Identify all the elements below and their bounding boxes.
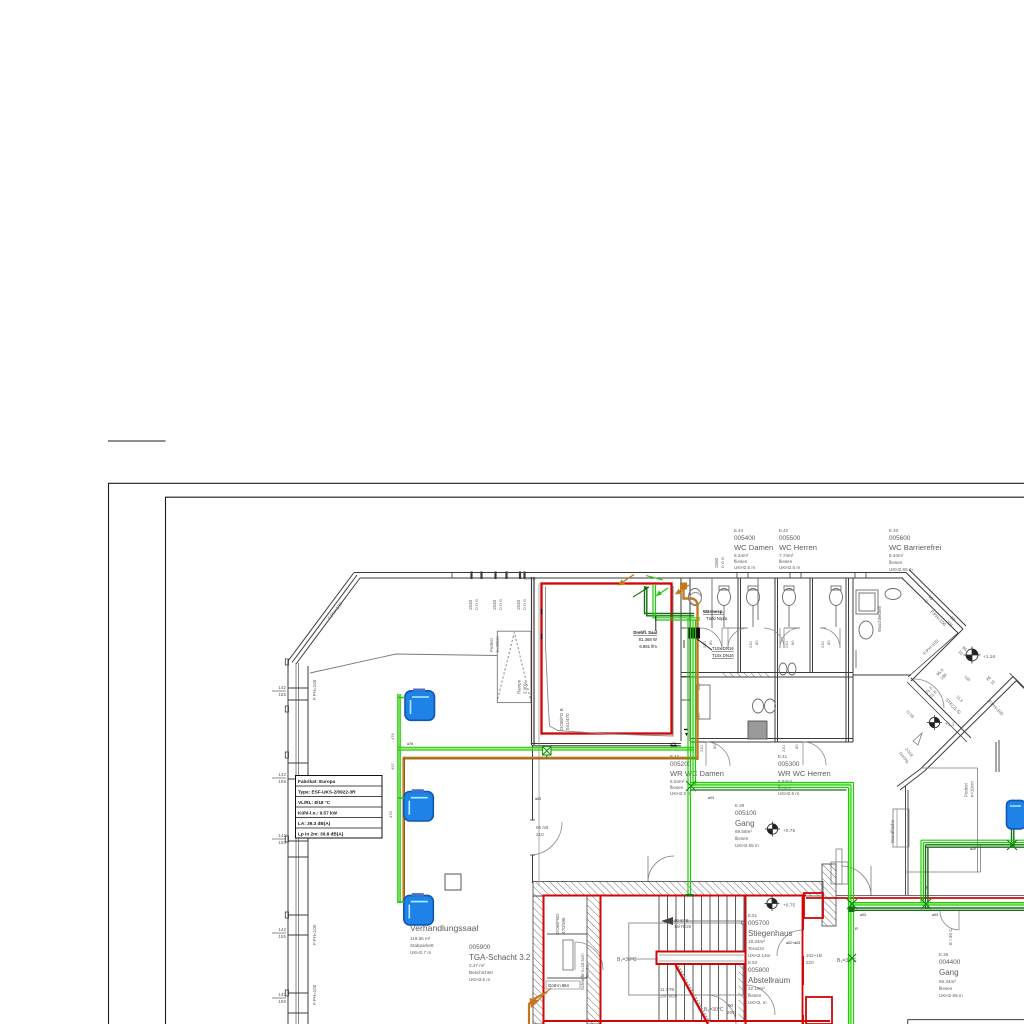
svg-text:WC Herren: WC Herren (779, 543, 817, 552)
svg-text:Stiegenhaus: Stiegenhaus (748, 929, 792, 938)
svg-text:a03: a03 (535, 797, 541, 801)
svg-text:E.52: E.52 (748, 960, 758, 965)
svg-text:R.A.R: R.A.R (524, 576, 536, 581)
svg-text:fliesen: fliesen (735, 836, 749, 841)
svg-text:E.40: E.40 (889, 528, 899, 533)
toilets (689, 586, 843, 627)
svg-text:UKH3.14m: UKH3.14m (748, 953, 771, 958)
svg-text:WC Damen: WC Damen (734, 543, 773, 552)
left wall notches (285, 659, 288, 996)
svg-text:90 AB: 90 AB (536, 825, 548, 830)
dark green horizontal y908 (851, 908, 1024, 910)
svg-text:Gott+n 664: Gott+n 664 (548, 983, 570, 988)
svg-text:155: 155 (278, 840, 286, 845)
svg-text:16/75/29: 16/75/29 (660, 994, 678, 999)
svg-text:UKH2.65 m: UKH2.65 m (889, 567, 913, 572)
svg-text:210: 210 (784, 641, 789, 648)
svg-text:D O B: D O B (474, 599, 479, 610)
Saal left wall (531, 577, 533, 745)
svg-text:Stabparkett: Stabparkett (410, 943, 434, 948)
Podest/Rampe triangle (497, 631, 531, 702)
svg-text:11 STB: 11 STB (660, 987, 674, 992)
svg-text:D O B: D O B (522, 599, 527, 610)
svg-text:UKH3. m: UKH3. m (748, 1000, 767, 1005)
PIPES (398, 575, 1024, 1024)
svg-text:210: 210 (536, 832, 544, 837)
green stubs to fan coils (398, 698, 405, 903)
svg-text:80: 80 (794, 744, 799, 749)
svg-text:Fabrikat: Europa: Fabrikat: Europa (298, 779, 336, 784)
svg-text:80: 80 (712, 744, 717, 749)
svg-text:5.63m²: 5.63m² (778, 779, 793, 784)
svg-text:a03: a03 (932, 913, 938, 917)
svg-text:n=10cm: n=10cm (495, 636, 500, 652)
bottom-right partial rect (908, 1019, 1024, 1021)
stall door arcs (700, 628, 840, 650)
svg-text:005600: 005600 (889, 535, 911, 542)
red corridor line right (806, 897, 1024, 899)
svg-text:22.19m²: 22.19m² (748, 986, 765, 991)
svg-text:F.PH=100: F.PH=100 (312, 984, 317, 1005)
svg-text:18.34m²: 18.34m² (748, 939, 765, 944)
svg-text:80: 80 (790, 640, 795, 645)
stair arrows + treads labels (661, 917, 673, 925)
svg-text:2.27 m²: 2.27 m² (469, 963, 485, 968)
red room inner gray outline (546, 587, 674, 737)
bundle horizontal y782-790 (690, 783, 854, 788)
svg-text:WC Barrierefrei: WC Barrierefrei (889, 543, 942, 552)
svg-text:004400: 004400 (939, 959, 961, 966)
svg-text:E.38: E.38 (939, 952, 949, 957)
svg-text:UKH2.7 m: UKH2.7 m (410, 950, 431, 955)
svg-text:3.90%: 3.90% (523, 681, 528, 694)
corridor wall vertical below Saal (532, 745, 534, 820)
svg-text:D O B: D O B (498, 599, 503, 610)
svg-text:80: 80 (754, 640, 759, 645)
svg-text:E.42: E.42 (779, 528, 789, 533)
svg-text:005800: 005800 (748, 967, 770, 974)
stair landing bar (657, 952, 746, 965)
top exterior wall (354, 572, 906, 574)
svg-text:005500: 005500 (779, 535, 801, 542)
svg-text:005400: 005400 (734, 535, 756, 542)
svg-text:16/75/29: 16/75/29 (674, 924, 692, 929)
svg-text:Abstellraum: Abstellraum (748, 976, 791, 985)
WC Barrierefrei fixtures (856, 589, 901, 669)
door arc Abstellraum right wall (706, 930, 803, 1024)
red room (Saal) (542, 584, 672, 734)
svg-text:2540: 2540 (516, 599, 521, 610)
bundle vertical x848-855 down (849, 783, 854, 1024)
svg-text:T10x DN16: T10x DN16 (712, 653, 734, 658)
svg-text:155: 155 (278, 779, 286, 784)
svg-text:142: 142 (278, 833, 286, 838)
svg-text:DOB/FD B: DOB/FD B (559, 708, 564, 730)
svg-text:210: 210 (781, 745, 786, 752)
stall dims rotated (699, 640, 831, 752)
svg-text:Drehfl. Saal: Drehfl. Saal (633, 630, 657, 635)
svg-text:005900: 005900 (469, 944, 491, 951)
wall below red room / corridor top (532, 743, 682, 745)
room label helper groups (410, 528, 963, 1015)
svg-text:Wärmesp.: Wärmesp. (703, 609, 724, 614)
svg-text:fliesen: fliesen (939, 986, 953, 991)
washbasin circle behind (690, 593, 702, 605)
svg-text:119.55 m²: 119.55 m² (410, 936, 431, 941)
svg-text:T10x DN16: T10x DN16 (712, 646, 734, 651)
svg-text:470/396: 470/396 (561, 917, 566, 934)
stair diagonal flight (676, 965, 709, 1024)
svg-text:E I 30 C: E I 30 C (948, 928, 953, 945)
svg-text:fliesen: fliesen (779, 559, 793, 564)
svg-text:155: 155 (278, 692, 286, 697)
door red jambs stair (745, 985, 747, 1015)
orange at TGA bottom (529, 992, 547, 1024)
svg-text:005100: 005100 (735, 810, 757, 817)
green horizontal pair y748 (398, 747, 694, 750)
left wall ticks (288, 688, 308, 1013)
svg-text:437: 437 (390, 763, 395, 770)
WC block middle wall (682, 672, 854, 674)
svg-text:69.58m²: 69.58m² (735, 829, 752, 834)
top-left diagonal wall (288, 573, 354, 662)
svg-text:fliesen: fliesen (889, 560, 903, 565)
svg-text:8.34m²: 8.34m² (889, 553, 904, 558)
WC partition walls (737, 578, 739, 673)
svg-text:478: 478 (388, 811, 393, 818)
svg-text:fliesen: fliesen (734, 559, 748, 564)
svg-text:142: 142 (278, 685, 286, 690)
svg-text:E.41: E.41 (778, 754, 788, 759)
WALLS (285, 570, 1024, 1024)
svg-text:Gang: Gang (939, 968, 959, 977)
svg-text:210: 210 (820, 641, 825, 648)
stairwell top red wall (601, 895, 807, 897)
svg-text:478: 478 (390, 733, 395, 740)
svg-text:102+1B: 102+1B (806, 953, 822, 958)
Abstellraum right red wall (802, 896, 804, 931)
top wall window ticks (452, 572, 866, 580)
valve on green line (543, 747, 552, 759)
svg-text:210: 210 (748, 641, 753, 648)
svg-text:Podest: Podest (489, 638, 494, 652)
orange vertical left (402, 757, 404, 901)
survey point symbols (765, 647, 996, 912)
svg-text:220: 220 (806, 960, 814, 965)
svg-text:142: 142 (278, 992, 286, 997)
svg-text:UKH2.65 m: UKH2.65 m (735, 843, 759, 848)
svg-text:B₃=30°C: B₃=30°C (617, 957, 637, 963)
svg-text:+1.1: +1.1 (945, 722, 955, 728)
svg-text:n=10cm: n=10cm (970, 781, 975, 797)
left wall inner segments (307, 666, 309, 1024)
TGA interior (547, 934, 603, 978)
svg-text:6.881 lfm: 6.881 lfm (639, 644, 657, 649)
svg-text:2540: 2540 (492, 599, 497, 610)
svg-text:DOB/FBD: DOB/FBD (555, 913, 560, 934)
bright green riser (top) (653, 585, 700, 620)
svg-text:Waschbecken: Waschbecken (877, 605, 882, 632)
svg-text:142: 142 (278, 772, 286, 777)
svg-text:F.PH=100: F.PH=100 (312, 924, 317, 945)
black pipe texts (407, 609, 976, 988)
washbasins lower rooms (696, 663, 796, 739)
svg-text:E.39: E.39 (735, 803, 745, 808)
Wandflaeche / Podest right area (893, 733, 999, 930)
svg-text:UKH2.5 m: UKH2.5 m (778, 791, 799, 796)
svg-text:Türkl Nrpla: Türkl Nrpla (706, 616, 728, 621)
svg-text:6.04m²: 6.04m² (670, 779, 685, 784)
svg-text:Wandfläche: Wandfläche (890, 819, 895, 843)
svg-text:80: 80 (708, 640, 713, 645)
dark green L right top: from blue box4 (926, 829, 1024, 909)
svg-text:65.34m²: 65.34m² (939, 979, 956, 984)
svg-text:UKH2.5 m: UKH2.5 m (779, 565, 800, 570)
column square Verhandlungssaal (445, 874, 461, 890)
door dimension near TGA (0, 0, 1, 1)
svg-text:155: 155 (278, 934, 286, 939)
left exterior wall (287, 660, 289, 1024)
bright green bundle vertical x690-697 (688, 618, 696, 897)
TGA red box (544, 896, 601, 1024)
interior boundary Verhandlungssaal top (310, 654, 497, 673)
svg-text:Terazzo: Terazzo (748, 946, 765, 951)
orange arrow into Saal (618, 575, 634, 586)
svg-text:LA: 39.3 dB(A): LA: 39.3 dB(A) (298, 821, 331, 826)
corridor misc rects (648, 849, 871, 896)
stair treads (659, 896, 744, 1020)
WC block bottom wall (690, 738, 853, 740)
green X valves at junctions (686, 781, 1018, 962)
svg-text:Kühl-l.o.: 9.57 kW: Kühl-l.o.: 9.57 kW (298, 811, 338, 816)
svg-text:155: 155 (278, 999, 286, 1004)
svg-text:541/470: 541/470 (565, 713, 570, 730)
svg-text:9.24m²: 9.24m² (734, 553, 749, 558)
svg-text:E.51: E.51 (748, 913, 758, 918)
svg-text:2580: 2580 (714, 557, 719, 568)
svg-text:F.PH=100: F.PH=100 (312, 679, 317, 700)
RED ELEMENTS (539, 583, 1024, 1024)
svg-text:a03: a03 (860, 913, 866, 917)
stair inner boundary (628, 921, 745, 995)
svg-text:VL/RL: 8/18 °C: VL/RL: 8/18 °C (298, 800, 331, 805)
svg-text:fliesen: fliesen (748, 993, 762, 998)
top-right diagonal zigzag (853, 570, 1024, 772)
142/155 window labels (278, 685, 286, 1004)
orange horizontal y758 (403, 757, 697, 759)
svg-text:90: 90 (728, 1003, 734, 1008)
doors WC bottom wall arcs (706, 742, 826, 766)
svg-text:Beschichtet: Beschichtet (469, 970, 493, 975)
svg-text:+0.75: +0.75 (783, 828, 795, 834)
svg-text:UKH2.65 m: UKH2.65 m (939, 993, 963, 998)
wall Saal/WC block (672, 586, 674, 737)
bright green vertical pair left (serves fan coils) (398, 694, 400, 903)
svg-text:2540: 2540 (468, 599, 473, 610)
black leader + box (Verteiler) (655, 616, 657, 631)
riser arrows (646, 576, 668, 597)
elevator red box (804, 893, 823, 918)
svg-text:WR WC Herren: WR WC Herren (778, 769, 831, 778)
svg-text:210: 210 (699, 745, 704, 752)
svg-text:Gang: Gang (735, 819, 755, 828)
svg-text:142: 142 (278, 927, 286, 932)
svg-text:Rampe: Rampe (517, 679, 522, 694)
svg-text:a03: a03 (708, 796, 714, 800)
bright green right top horizontal (921, 840, 1024, 903)
svg-text:WR WC Damen: WR WC Damen (670, 769, 724, 778)
svg-text:10 STB: 10 STB (674, 918, 689, 923)
svg-text:80: 80 (826, 640, 831, 645)
svg-text:005300: 005300 (778, 761, 800, 768)
svg-text:+0.75: +0.75 (783, 903, 795, 909)
stall dividers (690, 578, 826, 628)
svg-text:E.44: E.44 (734, 528, 744, 533)
svg-text:a02+a03: a02+a03 (786, 941, 800, 945)
svg-text:R: R (855, 926, 858, 931)
rotated labels (312, 557, 1005, 1005)
table (296, 776, 383, 839)
dark green riser elbow (top, into Saal) (645, 588, 695, 616)
svg-text:81.368 W: 81.368 W (639, 637, 658, 642)
svg-text:7.74m²: 7.74m² (779, 553, 794, 558)
svg-text:RW Tür: RW Tür (585, 963, 590, 978)
svg-text:005700: 005700 (748, 920, 770, 927)
svg-text:Lp in 2m: 30.8 dB(A): Lp in 2m: 30.8 dB(A) (298, 832, 344, 837)
orange riser elbow top-right (684, 586, 698, 760)
blue fan coil units (404, 689, 1024, 925)
bright green horizontal y903 (850, 903, 1024, 905)
svg-text:Podest: Podest (964, 783, 969, 797)
svg-text:200: 200 (727, 1010, 735, 1015)
svg-text:fliesen: fliesen (670, 785, 684, 790)
svg-text:B₃=30°C: B₃=30°C (704, 1007, 724, 1013)
diagonal dimension labels top-right (898, 594, 996, 764)
svg-text:Type: ESF-UKS-2/0922-3R: Type: ESF-UKS-2/0922-3R (298, 790, 356, 795)
red bottom line (544, 1020, 831, 1022)
svg-text:UKH2.5 m: UKH2.5 m (734, 565, 755, 570)
corridor bottom hatched wall (533, 882, 823, 897)
svg-text:UKH3.5 m: UKH3.5 m (469, 977, 490, 982)
door 90AB/210 arc in that wall (533, 822, 563, 855)
svg-text:TGA-Schacht 3.2: TGA-Schacht 3.2 (469, 953, 531, 962)
svg-text:+1.16: +1.16 (983, 654, 995, 660)
svg-text:D O B: D O B (720, 557, 725, 568)
orange arrow 2 (675, 585, 689, 595)
svg-text:a78: a78 (407, 742, 413, 746)
stairwell right red wall (745, 896, 747, 1024)
